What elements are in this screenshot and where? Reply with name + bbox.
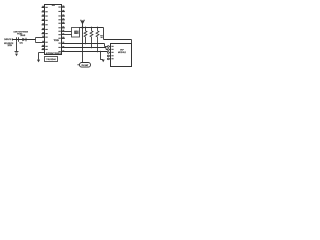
wire: terminal tick [12, 39, 14, 41]
node label: computer's port text [13, 31, 28, 35]
svg-text:1N4148: 1N4148 [20, 35, 25, 37]
label: tiny note near rail end [100, 35, 103, 38]
wire: across top of receiver box [104, 39, 132, 41]
ground (IC) arrow [37, 60, 40, 63]
label box under IC [45, 57, 58, 62]
resistor R2 [90, 28, 93, 48]
IC right pins [62, 7, 65, 38]
wire: line2 jog down [105, 48, 107, 50]
IC right pin numbers [62, 6, 64, 52]
crystal symbol inside TX box [74, 31, 78, 34]
svg-text:9V BAT: 9V BAT [82, 64, 90, 67]
arrow head down [102, 60, 105, 63]
wire: connector ground drop [16, 42, 18, 52]
IC right inner pin names [58, 7, 60, 53]
wire: IC ground stub [39, 52, 45, 54]
wire: split vertical to two IC pins [35, 38, 37, 43]
junction ticks on rail [83, 26, 98, 28]
svg-text:D1: D1 [20, 43, 23, 45]
svg-text:25: 25 [7, 45, 12, 47]
wire: data line 2 [62, 47, 107, 49]
wire: line1 jog down [104, 44, 106, 47]
node label: pin labels at wire start [4, 38, 14, 47]
svg-text:TXD: TXD [54, 40, 60, 42]
wire: down to receiver corner [131, 40, 133, 44]
wire: branch to lower pin [36, 42, 46, 44]
connector J1 double bars [16, 37, 18, 41]
battery stadium BT1 [80, 63, 91, 68]
TX oscillator box [72, 28, 80, 38]
wire: data line 3 [62, 51, 108, 53]
receiver pin circles and stubs [107, 46, 110, 60]
svg-text:MODULE: MODULE [118, 52, 126, 54]
receiver pin labels [111, 46, 113, 60]
wire: branch to upper pin [36, 37, 46, 39]
svg-text:74LS244: 74LS244 [46, 59, 56, 61]
label: receiver text [118, 50, 126, 54]
wire: line2 into pin [106, 49, 108, 51]
antenna [81, 20, 85, 24]
wire: data line 1 [62, 43, 105, 45]
wire: rail end down [103, 28, 105, 40]
IC left pin numbers [42, 6, 44, 49]
wire: IC to TX box lower [62, 34, 72, 36]
ground (left, connector) [15, 51, 19, 53]
IC left inner pin names [45, 7, 47, 50]
svg-text:DATA PIN: DATA PIN [4, 38, 12, 41]
wire: line1 into pin [105, 46, 108, 48]
svg-text:AT89C2051: AT89C2051 [46, 52, 61, 55]
IC notch [52, 5, 55, 6]
diode D1 [22, 38, 26, 42]
wire: antenna stem down through rail to battery [82, 23, 84, 62]
IC left pins [42, 7, 45, 49]
resistor R3 [96, 28, 99, 52]
resistor R1 [84, 28, 87, 44]
wire: from connector through diode [12, 39, 35, 41]
wire: IC to TX box upper [62, 31, 72, 33]
junction dots on data lines [85, 43, 102, 53]
receiver box [111, 44, 132, 67]
wire: top rail [80, 27, 104, 29]
wire: stadium left stub [77, 64, 79, 66]
wire: IC ground drop [38, 53, 40, 60]
wire: junction drop to arrow [101, 52, 103, 60]
op-amp U1: IC body DIP [45, 5, 62, 55]
